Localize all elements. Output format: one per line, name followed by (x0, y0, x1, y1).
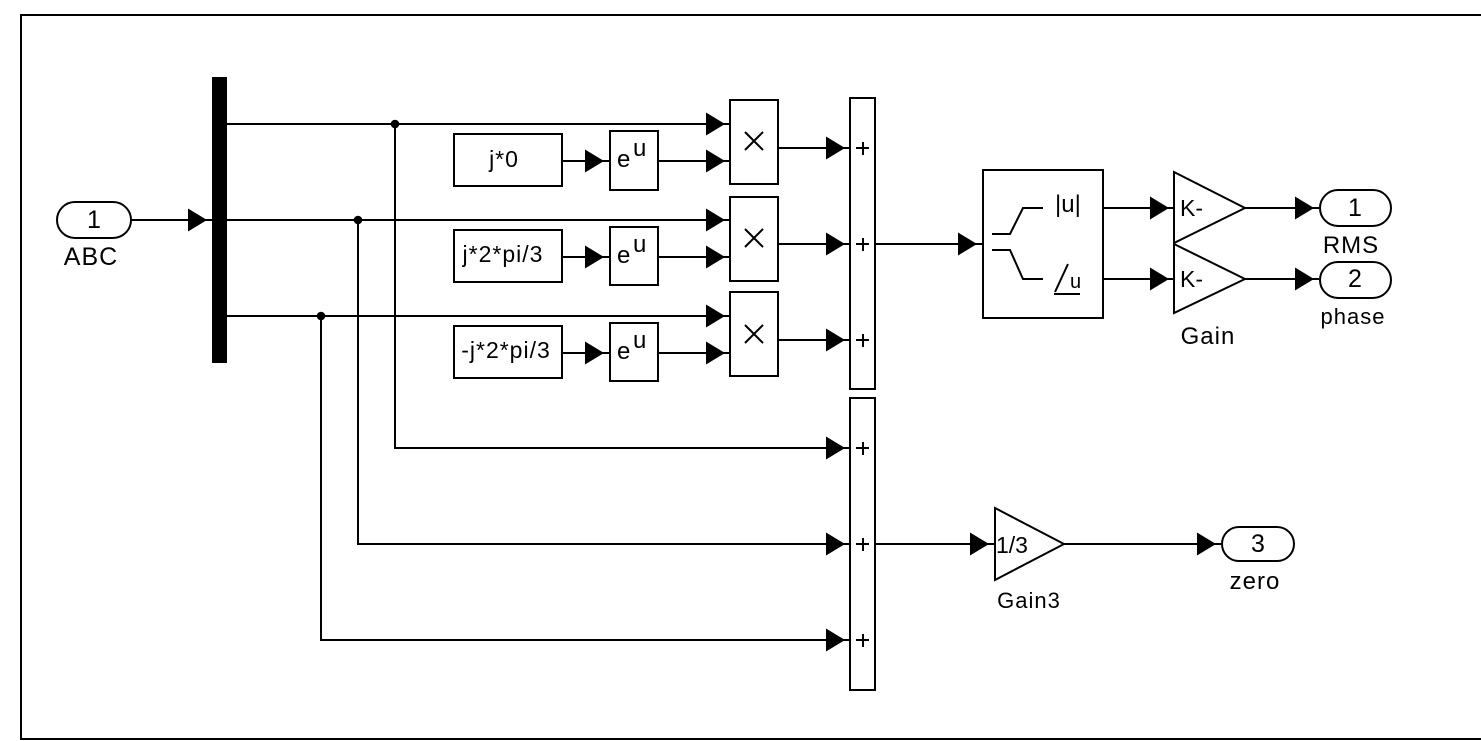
svg-text:ABC: ABC (64, 243, 118, 271)
wire E3 to product P3 (658, 342, 730, 365)
svg-text:u: u (633, 135, 646, 162)
wire j*0 to exp E1 (562, 150, 609, 173)
math function block E1 (e^u) (610, 131, 658, 190)
svg-text:u: u (633, 231, 646, 258)
wire E2 to product P2 (658, 246, 730, 269)
svg-text:e: e (617, 242, 630, 269)
wire E1 to product P1 (658, 150, 730, 173)
wire U1 |u| output to gain K1 (1103, 197, 1173, 220)
svg-text:2: 2 (1348, 265, 1362, 293)
svg-text:1: 1 (1348, 194, 1362, 222)
wire P2 to Sum1 input 2 (778, 233, 850, 256)
sum block Sum1 (850, 98, 875, 389)
wire row B (demux out2 to product P2) (226, 209, 730, 232)
label Gain (1181, 323, 1236, 350)
wire P1 to Sum1 input 1 (778, 137, 850, 160)
wire K1 to output port 1 (1245, 197, 1319, 220)
output port 2 (phase) (1320, 262, 1391, 329)
wire input port to demux (131, 209, 212, 232)
wire U1 angle output to gain K2 (1103, 268, 1173, 291)
constant block j*2*pi/3 (454, 230, 562, 282)
wire -j*2*pi/3 to exp E3 (562, 342, 609, 365)
svg-text:j*2*pi/3: j*2*pi/3 (462, 241, 544, 267)
svg-text:e: e (617, 338, 630, 365)
svg-text:3: 3 (1251, 530, 1265, 558)
wire P3 to Sum1 input 3 (778, 329, 850, 352)
gain block Gain3 (1/3) (995, 508, 1064, 613)
svg-text:1: 1 (87, 206, 101, 234)
svg-text:phase: phase (1321, 304, 1386, 329)
svg-text:K-: K- (1180, 266, 1203, 292)
svg-text:zero: zero (1230, 568, 1281, 595)
math function block E3 (e^u) (610, 323, 658, 381)
math function block E2 (e^u) (610, 227, 658, 285)
wire K2 to output port 2 (1245, 268, 1319, 291)
svg-text:1/3: 1/3 (996, 532, 1028, 558)
product block P1 (730, 100, 778, 184)
output port 3 (zero) (1222, 527, 1294, 595)
svg-text:j*0: j*0 (488, 146, 519, 172)
wire branch row A to Sum2 input 1 (395, 124, 850, 460)
wire branch row C to Sum2 input 3 (321, 316, 850, 652)
svg-text:e: e (617, 146, 630, 173)
gain block K2 (K-) (1174, 244, 1245, 313)
gain block K1 (K-) (1174, 172, 1245, 243)
svg-text:u: u (1070, 271, 1081, 293)
node junction row C (317, 312, 326, 321)
node junction row A (391, 120, 400, 129)
svg-text:K-: K- (1180, 195, 1203, 221)
svg-text:RMS: RMS (1323, 232, 1379, 259)
product block P2 (730, 197, 778, 281)
svg-text:|u|: |u| (1055, 191, 1081, 218)
complex to magnitude-angle block U1 (983, 170, 1103, 318)
sum block Sum2 (850, 398, 875, 690)
product block P3 (730, 292, 778, 376)
node junction row B (354, 216, 363, 225)
wire Gain3 to output port 3 (1064, 533, 1221, 556)
wire Sum2 to gain Gain3 (875, 533, 994, 556)
constant block -j*2*pi/3 (454, 326, 562, 378)
constant block j*0 (454, 134, 562, 186)
wire Sum1 to complex-to-magnitude-angle U1 (875, 233, 982, 256)
svg-text:Gain3: Gain3 (997, 588, 1061, 613)
demux bus bar (212, 77, 227, 363)
svg-text:u: u (633, 327, 646, 354)
wire row A (demux out1 to product P1) (226, 113, 730, 136)
output port 1 (RMS) (1320, 190, 1391, 259)
wire row C (demux out3 to product P3) (226, 305, 730, 328)
wire branch row B to Sum2 input 2 (358, 220, 850, 556)
svg-text:-j*2*pi/3: -j*2*pi/3 (461, 337, 551, 363)
input port 1 (ABC) (57, 202, 131, 271)
svg-text:Gain: Gain (1181, 323, 1236, 350)
wire j*2*pi/3 to exp E2 (562, 246, 609, 269)
